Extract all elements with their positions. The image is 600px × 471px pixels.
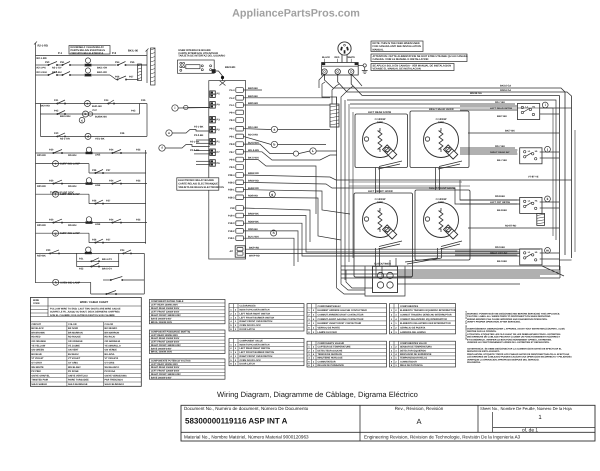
svg-text:P4-1: P4-1 bbox=[229, 104, 235, 107]
svg-text:LAMPE DU FOUR: LAMPE DU FOUR bbox=[318, 331, 338, 334]
svg-text:BK/7-BK: BK/7-BK bbox=[497, 115, 507, 118]
svg-text:BR/W-RD: BR/W-RD bbox=[248, 172, 259, 175]
svg-text:R2-1-RD: R2-1-RD bbox=[38, 45, 49, 48]
svg-text:P36: P36 bbox=[92, 199, 97, 202]
svg-text:P8-4: P8-4 bbox=[229, 111, 235, 114]
svg-text:P37: P37 bbox=[106, 199, 111, 202]
svg-text:CANADA: VOIR LE MANUEL D INSTA: CANADA: VOIR LE MANUEL D INSTALLATION bbox=[373, 58, 429, 61]
svg-text:P37: P37 bbox=[106, 169, 111, 172]
svg-text:Document No., Numéro de docume: Document No., Numéro de document, Número… bbox=[184, 406, 309, 411]
svg-text:P34: P34 bbox=[109, 218, 114, 221]
svg-text:YE AMARILLO: YE AMARILLO bbox=[105, 344, 121, 347]
svg-text:a: a bbox=[86, 102, 88, 106]
svg-text:CERROJO DE PUERTA: CERROJO DE PUERTA bbox=[400, 326, 426, 329]
svg-text:P8-6: P8-6 bbox=[229, 159, 235, 162]
svg-text:GN VERT: GN VERT bbox=[68, 349, 79, 352]
svg-text:VERROU DE PORTE: VERROU DE PORTE bbox=[318, 326, 341, 329]
svg-text:COMPOSANT PUISSANCE (WATTS): COMPOSANT PUISSANCE (WATTS) bbox=[151, 331, 190, 334]
svg-text:BAKE 2000W 240V: BAKE 2000W 240V bbox=[151, 347, 172, 350]
svg-text:RD-9-BK: RD-9-BK bbox=[495, 246, 505, 249]
svg-text:LAMPARA DEL HORNO: LAMPARA DEL HORNO bbox=[400, 331, 426, 334]
svg-text:VT VIOLET: VT VIOLET bbox=[31, 357, 44, 360]
svg-text:PK PINK: PK PINK bbox=[31, 370, 41, 373]
svg-text:SERVICIO DE ESTE APARATO.: SERVICIO DE ESTE APARATO. bbox=[467, 350, 500, 353]
svg-text:P21: P21 bbox=[79, 258, 84, 261]
svg-text:RD-WH: RD-WH bbox=[68, 154, 77, 157]
svg-text:RD-1-BK: RD-1-BK bbox=[248, 126, 258, 129]
svg-text:MINUTERIE HORLOGE: MINUTERIE HORLOGE bbox=[318, 357, 344, 360]
svg-text:P18-2: P18-2 bbox=[228, 230, 235, 233]
svg-text:LEFT FRONT BURNER SWITCH: LEFT FRONT BURNER SWITCH bbox=[240, 316, 275, 319]
svg-text:P18-1: P18-1 bbox=[228, 237, 235, 240]
svg-text:RIGHT FRONT 1800W 240V: RIGHT FRONT 1800W 240V bbox=[151, 314, 181, 317]
svg-text:OR NARANJA: OR NARANJA bbox=[105, 340, 121, 343]
svg-text:YE JAUNE: YE JAUNE bbox=[68, 344, 80, 347]
svg-text:R2-1-GY: R2-1-GY bbox=[52, 67, 62, 70]
svg-text:WH BLANC: WH BLANC bbox=[68, 366, 81, 369]
svg-text:R2-1-PK: R2-1-PK bbox=[37, 67, 47, 70]
svg-text:LINE: LINE bbox=[95, 184, 101, 187]
svg-text:LOS ERRORES DE CABLEADO PUEDEN: LOS ERRORES DE CABLEADO PUEDEN CAUSAR UN… bbox=[467, 356, 572, 359]
svg-text:ELEMENTO DELANTERO DER INTERRU: ELEMENTO DELANTERO DER INTERRUPTOR bbox=[400, 322, 451, 325]
svg-text:WIRING ERRORS CAN CAUSE IMPROP: WIRING ERRORS CAN CAUSE IMPROPER AND DAN… bbox=[467, 318, 548, 321]
svg-text:P18-3: P18-3 bbox=[228, 222, 235, 225]
svg-text:CAPTEUR DE TEMPERATURE: CAPTEUR DE TEMPERATURE bbox=[318, 346, 352, 349]
svg-text:RELAIS DE PUISSANCE: RELAIS DE PUISSANCE bbox=[318, 364, 345, 367]
svg-text:INDICADOR DE SUPERFICIE: INDICADOR DE SUPERFICIE bbox=[400, 353, 432, 356]
svg-text:RD-WH: RD-WH bbox=[68, 224, 77, 227]
svg-text:WHITE: WHITE bbox=[348, 56, 356, 59]
svg-text:R20-RD: R20-RD bbox=[37, 185, 46, 188]
svg-text:AC: AC bbox=[230, 250, 234, 253]
svg-text:P8-2: P8-2 bbox=[229, 128, 235, 131]
svg-text:LEFT FRT INFSW: LEFT FRT INFSW bbox=[490, 201, 511, 204]
svg-text:BU AZUL: BU AZUL bbox=[105, 353, 116, 356]
svg-text:P28-1: P28-1 bbox=[228, 189, 235, 192]
svg-text:BU/1-BK: BU/1-BK bbox=[92, 105, 102, 108]
svg-text:PK ROSA: PK ROSA bbox=[105, 370, 116, 373]
svg-text:P36: P36 bbox=[92, 238, 97, 241]
svg-text:OVEN IND LAMP: OVEN IND LAMP bbox=[60, 281, 81, 284]
svg-text:P4-2: P4-2 bbox=[229, 97, 235, 100]
svg-text:P8-5: P8-5 bbox=[229, 166, 235, 169]
svg-text:TWISTED PAIR: TWISTED PAIR bbox=[31, 379, 48, 382]
svg-text:RD-WH: RD-WH bbox=[68, 185, 77, 188]
svg-text:COMMUT AVANT GAUCHE CONTACTEUR: COMMUT AVANT GAUCHE CONTACTEUR bbox=[318, 318, 364, 321]
svg-text:ELEMENT ARRIERE GAUCHE CONTACT: ELEMENT ARRIERE GAUCHE CONTACTEUR bbox=[318, 309, 368, 312]
svg-text:L: L bbox=[312, 149, 314, 153]
svg-text:BK/9-BK: BK/9-BK bbox=[248, 87, 258, 90]
svg-text:OVEN DOOR LOCK: OVEN DOOR LOCK bbox=[240, 359, 262, 362]
svg-text:BK/9-BK: BK/9-BK bbox=[248, 95, 258, 98]
svg-text:WIRE / CABLE CHART: WIRE / CABLE CHART bbox=[80, 301, 109, 304]
svg-text:VERIFIER LE FONCTIONNEMENT APR: VERIFIER LE FONCTIONNEMENT APRES DE L EN… bbox=[467, 341, 550, 344]
svg-text:DETECTOR IZQUIERDO: DETECTOR IZQUIERDO bbox=[400, 349, 426, 352]
svg-text:RIGHT FRONT OVEN SWITCH: RIGHT FRONT OVEN SWITCH bbox=[240, 320, 273, 323]
svg-text:CAUTION: LABEL ALL WIRES PRIOR: CAUTION: LABEL ALL WIRES PRIOR TO DISCON… bbox=[467, 315, 551, 318]
svg-text:COMMUTATEUR: COMMUTATEUR bbox=[318, 360, 336, 363]
svg-text:YE YELLOW: YE YELLOW bbox=[31, 344, 46, 347]
svg-text:SURF IND LAMP: SURF IND LAMP bbox=[60, 193, 80, 196]
svg-text:LEFT FRONT 1200W 240V: LEFT FRONT 1200W 240V bbox=[151, 311, 180, 314]
svg-text:P45: P45 bbox=[141, 99, 146, 102]
svg-text:BR/9-BR: BR/9-BR bbox=[248, 102, 258, 105]
svg-text:P35: P35 bbox=[136, 218, 141, 221]
svg-text:DES ERREURS DE CABLAGE PEUVENT: DES ERREURS DE CABLAGE PEUVENT CAUSER UN… bbox=[467, 336, 561, 339]
svg-text:BK BLACK: BK BLACK bbox=[31, 327, 44, 330]
svg-text:BU BLUE: BU BLUE bbox=[31, 353, 42, 356]
svg-text:a: a bbox=[273, 128, 275, 132]
svg-text:GN VERDE: GN VERDE bbox=[105, 349, 118, 352]
svg-text:DOOR LATCH: DOOR LATCH bbox=[240, 328, 256, 331]
svg-text:P8-8: P8-8 bbox=[229, 143, 235, 146]
svg-text:COMPOSANTS VALEUR: COMPOSANTS VALEUR bbox=[318, 342, 345, 345]
svg-text:P30: P30 bbox=[49, 149, 54, 152]
svg-text:LINE: LINE bbox=[95, 223, 101, 226]
svg-text:TEMPORIZADOR RELOJ: TEMPORIZADOR RELOJ bbox=[400, 357, 428, 360]
svg-text:DEPOSE PAR LE CORDON.: DEPOSE PAR LE CORDON. bbox=[467, 330, 497, 333]
svg-text:PAR TRENZADO: PAR TRENZADO bbox=[105, 379, 124, 382]
svg-text:COMMUT ARRIERE DROIT CONTACTEU: COMMUT ARRIERE DROIT CONTACTEUR bbox=[318, 314, 364, 317]
svg-text:BK/4-RD: BK/4-RD bbox=[40, 105, 50, 108]
svg-text:e: e bbox=[55, 162, 57, 166]
svg-text:P30: P30 bbox=[49, 218, 54, 221]
svg-text:COMPONENTES: COMPONENTES bbox=[400, 305, 419, 308]
svg-text:P3-2-BK: P3-2-BK bbox=[194, 134, 204, 137]
svg-text:CIRCUITO RELELETROICA: CIRCUITO RELELETROICA bbox=[71, 52, 104, 55]
svg-text:P24: P24 bbox=[120, 249, 125, 252]
svg-text:WH BLANCO: WH BLANCO bbox=[105, 366, 120, 369]
svg-text:RD-7-BK: RD-7-BK bbox=[495, 101, 505, 104]
svg-text:P30: P30 bbox=[49, 179, 54, 182]
svg-text:ET DANGEREUX. VERIFIER LE BON: ET DANGEREUX. VERIFIER LE BON FONCTIONNE… bbox=[467, 338, 552, 341]
svg-text:P3-1-BK: P3-1-BK bbox=[194, 126, 204, 129]
svg-text:COMPONENTES VALOR: COMPONENTES VALOR bbox=[400, 342, 427, 345]
svg-text:COLOR: COLOR bbox=[105, 323, 114, 326]
svg-text:e: e bbox=[168, 131, 170, 135]
svg-text:BROIL 3000W 240V: BROIL 3000W 240V bbox=[151, 351, 173, 354]
svg-text:LEFT FRONT 1200W 240V: LEFT FRONT 1200W 240V bbox=[151, 370, 180, 373]
svg-text:d: d bbox=[87, 135, 89, 139]
svg-text:BK-9-BK: BK-9-BK bbox=[497, 260, 507, 263]
svg-text:COMPONENTS/ELEC: COMPONENTS/ELEC bbox=[318, 305, 342, 308]
svg-text:BK/4-WH: BK/4-WH bbox=[60, 115, 71, 118]
svg-text:P8-3: P8-3 bbox=[229, 119, 235, 122]
svg-text:P18-4: P18-4 bbox=[228, 215, 235, 218]
svg-text:CLOCK/TIMER: CLOCK/TIMER bbox=[374, 263, 391, 266]
svg-text:Engineering Revision, Révision: Engineering Revision, Révision de Techno… bbox=[364, 435, 521, 440]
svg-text:WARNING: POWER MUST BE DISCONN: WARNING: POWER MUST BE DISCONNECTED BEFO… bbox=[467, 313, 560, 316]
svg-text:BK-8-BK: BK-8-BK bbox=[497, 209, 507, 212]
svg-text:MAIN TOP/COVER SWITCH: MAIN TOP/COVER SWITCH bbox=[240, 308, 270, 311]
svg-text:i: i bbox=[175, 106, 176, 110]
svg-text:h: h bbox=[273, 231, 275, 235]
svg-text:k: k bbox=[547, 197, 549, 201]
svg-text:R2-1-BU: R2-1-BU bbox=[52, 71, 62, 74]
svg-text:P18: P18 bbox=[230, 207, 235, 210]
svg-text:WH WHITE: WH WHITE bbox=[31, 366, 44, 369]
svg-text:LEFT REAR 1200W 240V: LEFT REAR 1200W 240V bbox=[151, 304, 178, 307]
svg-text:j: j bbox=[546, 147, 548, 151]
svg-text:VERIFIQUE LA OPERACION APROPIA: VERIFIQUE LA OPERACION APROPIADA DESPUES… bbox=[467, 358, 540, 361]
svg-text:P54: P54 bbox=[115, 61, 120, 64]
svg-text:g: g bbox=[271, 192, 273, 196]
svg-text:OVEN DOOR LOCK: OVEN DOOR LOCK bbox=[240, 324, 262, 327]
svg-text:g: g bbox=[55, 231, 57, 235]
svg-text:COMPONENTE POTENCIA VOLTIOS: COMPONENTE POTENCIA VOLTIOS bbox=[151, 359, 191, 362]
svg-text:P-5: P-5 bbox=[112, 52, 117, 55]
svg-text:P41: P41 bbox=[54, 99, 59, 102]
svg-text:BK/7-BK: BK/7-BK bbox=[505, 130, 515, 133]
svg-text:RD RED: RD RED bbox=[31, 336, 40, 339]
svg-text:AppliancePartsPros.com: AppliancePartsPros.com bbox=[232, 8, 360, 20]
svg-text:BK/1-RD: BK/1-RD bbox=[97, 71, 107, 74]
svg-text:RD-8-BK: RD-8-BK bbox=[495, 195, 505, 198]
svg-text:WH/16 GA: WH/16 GA bbox=[470, 92, 482, 95]
svg-text:LINE: LINE bbox=[95, 154, 101, 157]
svg-text:COMPONENT RATING TABLE: COMPONENT RATING TABLE bbox=[151, 300, 184, 303]
svg-text:P20: P20 bbox=[46, 249, 51, 252]
svg-text:P28-4: P28-4 bbox=[228, 174, 235, 177]
svg-text:LEFT REAR INFSW: LEFT REAR INFSW bbox=[490, 107, 513, 110]
svg-text:58300000119116 ASP INT A: 58300000119116 ASP INT A bbox=[185, 417, 288, 426]
svg-text:R2-1-OR: R2-1-OR bbox=[60, 138, 70, 141]
svg-text:Sheet No., Nombre De Feuille,: Sheet No., Nombre De Feuille, Número De … bbox=[480, 406, 572, 411]
svg-text:BLACK: BLACK bbox=[322, 56, 330, 59]
svg-text:VT VIOLET: VT VIOLET bbox=[68, 357, 81, 360]
svg-text:LEFT REAR 1200W 240V: LEFT REAR 1200W 240V bbox=[151, 334, 178, 337]
svg-text:BR MARRON: BR MARRON bbox=[105, 331, 120, 334]
svg-text:ELECTRONIC RELAY BOARD: ELECTRONIC RELAY BOARD bbox=[178, 179, 214, 182]
svg-text:RD/16 GA: RD/16 GA bbox=[500, 89, 511, 92]
svg-text:LEFT FRONT BURNER SWITCH: LEFT FRONT BURNER SWITCH bbox=[240, 351, 275, 354]
svg-text:OR ORANGE: OR ORANGE bbox=[68, 340, 83, 343]
svg-text:P28-3: P28-3 bbox=[228, 196, 235, 199]
svg-text:BK NEGRO: BK NEGRO bbox=[105, 327, 118, 330]
svg-text:b: b bbox=[85, 112, 87, 116]
svg-text:LEFT FRONT 1200W 240V: LEFT FRONT 1200W 240V bbox=[151, 341, 180, 344]
svg-text:RD-8T-RD: RD-8T-RD bbox=[505, 225, 517, 228]
svg-text:R20-RD: R20-RD bbox=[37, 154, 46, 157]
svg-text:P47: P47 bbox=[93, 109, 98, 112]
svg-text:ADVERTENCIA: SE DEBE DESCONECT: ADVERTENCIA: SE DEBE DESCONECTAR LA ALIM… bbox=[467, 348, 562, 351]
svg-text:CONMUTADOR: CONMUTADOR bbox=[400, 360, 417, 363]
svg-text:AVERTISSEMENT: DEBRANCHER L AP: AVERTISSEMENT: DEBRANCHER L APPAREIL AVA… bbox=[467, 328, 565, 331]
svg-text:TARJETA DE RELES ELECTRONICOS: TARJETA DE RELES ELECTRONICOS bbox=[178, 186, 224, 189]
svg-text:RD-3-RD: RD-3-RD bbox=[248, 134, 258, 137]
svg-text:PK ROSE: PK ROSE bbox=[68, 370, 79, 373]
svg-text:BK/L-86: BK/L-86 bbox=[128, 50, 139, 53]
svg-text:SURF IND LAMP: SURF IND LAMP bbox=[60, 163, 80, 166]
svg-text:P50: P50 bbox=[45, 61, 50, 64]
svg-text:RIGHT FRONT OVEN SWITCH: RIGHT FRONT OVEN SWITCH bbox=[240, 355, 273, 358]
svg-text:RELE DE POTENCIA: RELE DE POTENCIA bbox=[400, 364, 423, 367]
svg-text:i: i bbox=[545, 103, 546, 107]
svg-text:P51: P51 bbox=[60, 61, 65, 64]
svg-text:P37: P37 bbox=[106, 238, 111, 241]
svg-text:BR MARRON: BR MARRON bbox=[68, 331, 83, 334]
svg-text:R20-BK: R20-BK bbox=[37, 255, 46, 258]
svg-text:P56: P56 bbox=[115, 76, 120, 79]
svg-text:h: h bbox=[55, 280, 57, 284]
svg-text:GN/YE GRN/YEL: GN/YE GRN/YEL bbox=[31, 374, 50, 377]
svg-text:BK-7-BK: BK-7-BK bbox=[497, 159, 507, 162]
svg-text:BR BROWN: BR BROWN bbox=[31, 331, 45, 334]
svg-text:YE/1-BK: YE/1-BK bbox=[95, 138, 105, 141]
svg-text:BROIL 3000W 240V: BROIL 3000W 240V bbox=[151, 321, 173, 324]
svg-text:BK/P-RD: BK/P-RD bbox=[249, 246, 259, 249]
svg-text:WIRE: WIRE bbox=[33, 299, 39, 302]
svg-text:COMPONENT VALUE: COMPONENT VALUE bbox=[240, 340, 264, 343]
svg-text:m: m bbox=[546, 249, 549, 253]
svg-text:BR-4-GY: BR-4-GY bbox=[102, 258, 112, 261]
svg-text:P34: P34 bbox=[109, 149, 114, 152]
svg-text:CONMUT DELANTERO IZQ INTERRUPT: CONMUT DELANTERO IZQ INTERRUPTOR bbox=[400, 318, 447, 321]
svg-text:VEANSE EL MANUAL DE INSTALACIO: VEANSE EL MANUAL DE INSTALACION bbox=[373, 68, 421, 71]
svg-text:P34: P34 bbox=[109, 179, 114, 182]
svg-text:SENSOR DE TEMPERATURA: SENSOR DE TEMPERATURA bbox=[400, 346, 432, 349]
svg-text:P42: P42 bbox=[54, 110, 59, 113]
svg-text:BK/16 GA: BK/16 GA bbox=[500, 85, 511, 88]
svg-text:BAKE 2000W 240V: BAKE 2000W 240V bbox=[151, 317, 172, 320]
svg-text:PAIRE TORSADEE: PAIRE TORSADEE bbox=[68, 379, 89, 382]
svg-text:BK/4-RD: BK/4-RD bbox=[225, 66, 235, 69]
svg-text:RIGHT REAR 1500W 240V: RIGHT REAR 1500W 240V bbox=[151, 307, 180, 310]
svg-text:LEFT REAR RIGHT SWITCH: LEFT REAR RIGHT SWITCH bbox=[240, 347, 271, 350]
svg-text:BU/W-RD: BU/W-RD bbox=[248, 187, 259, 190]
svg-text:P40: P40 bbox=[54, 132, 59, 135]
svg-text:ELEMENTO TRASERO IZQUIERDO INT: ELEMENTO TRASERO IZQUIERDO INTERRUPTOR bbox=[400, 309, 456, 312]
svg-text:P4-4: P4-4 bbox=[229, 89, 235, 92]
svg-text:CIRCUIT: CIRCUIT bbox=[31, 323, 41, 326]
svg-text:c: c bbox=[81, 118, 83, 122]
svg-text:GN/YE VERDE/AMA: GN/YE VERDE/AMA bbox=[105, 374, 127, 377]
svg-text:WH/P-RD: WH/P-RD bbox=[249, 254, 260, 257]
svg-text:RIGHT REAR 1500W 240V: RIGHT REAR 1500W 240V bbox=[151, 366, 180, 369]
svg-text:BK/1-OR: BK/1-OR bbox=[97, 67, 107, 70]
svg-text:BU/BK-BK: BU/BK-BK bbox=[95, 115, 107, 118]
svg-text:P8-7: P8-7 bbox=[229, 151, 235, 154]
svg-text:Rev., Révision, Revisión: Rev., Révision, Revisión bbox=[395, 406, 444, 411]
svg-text:VT-8T-YE: VT-8T-YE bbox=[528, 176, 539, 179]
svg-text:RIGHT FRT INF: RIGHT FRT INF bbox=[490, 252, 508, 255]
svg-text:CLEARANCES: CLEARANCES bbox=[240, 305, 257, 308]
svg-text:LEFT REAR 1200W: LEFT REAR 1200W bbox=[368, 111, 392, 114]
svg-text:LEFT REAR 1200W 240V: LEFT REAR 1200W 240V bbox=[151, 363, 178, 366]
svg-text:RD ROJO: RD ROJO bbox=[105, 336, 116, 339]
svg-text:BK NOIR: BK NOIR bbox=[68, 327, 78, 330]
svg-text:RED: RED bbox=[335, 56, 340, 59]
svg-text:LEFT FRONT 1200W: LEFT FRONT 1200W bbox=[368, 190, 393, 193]
svg-text:RD ROUGE: RD ROUGE bbox=[68, 336, 81, 339]
svg-text:P46: P46 bbox=[120, 132, 125, 135]
svg-text:RD-7-BK: RD-7-BK bbox=[495, 145, 505, 148]
svg-text:ATTENTION: ETIQUETER LES FILS: ATTENTION: ETIQUETER LES FILS AVANT DE L… bbox=[467, 333, 561, 336]
svg-text:MAIN TOP/COVER SWITCH: MAIN TOP/COVER SWITCH bbox=[240, 343, 270, 346]
svg-text:TEMOIN DE SURFACE: TEMOIN DE SURFACE bbox=[318, 353, 343, 356]
svg-text:P35: P35 bbox=[136, 179, 141, 182]
svg-text:P36: P36 bbox=[92, 169, 97, 172]
svg-text:BAKE 2000W 240V: BAKE 2000W 240V bbox=[151, 376, 172, 379]
svg-text:TARJETA DE INTERFAZ DEL USUARI: TARJETA DE INTERFAZ DEL USUARIO bbox=[178, 55, 225, 58]
svg-text:SHLD SHIELD: SHLD SHIELD bbox=[31, 383, 47, 386]
svg-text:R20-RD: R20-RD bbox=[37, 224, 46, 227]
svg-text:GY GRAY: GY GRAY bbox=[31, 362, 42, 365]
svg-text:P8-1: P8-1 bbox=[229, 135, 235, 138]
svg-text:CODE: CODE bbox=[33, 302, 40, 305]
svg-text:RIGHT REAR 1500W 240V: RIGHT REAR 1500W 240V bbox=[151, 337, 180, 340]
svg-text:PRECAUCION: ETIQUETE TODOS LOS: PRECAUCION: ETIQUETE TODOS LOS CABLES AN… bbox=[467, 353, 570, 356]
svg-text:R2-1-RD: R2-1-RD bbox=[37, 57, 47, 60]
svg-text:BR/W-RD: BR/W-RD bbox=[248, 180, 259, 183]
svg-text:GY GRIS: GY GRIS bbox=[105, 362, 115, 365]
svg-text:SHLD BLINDAGE: SHLD BLINDAGE bbox=[68, 383, 88, 386]
svg-text:GY GRIS: GY GRIS bbox=[68, 362, 78, 365]
svg-text:P35: P35 bbox=[136, 149, 141, 152]
svg-text:SON EL CALIBRE; DOS ULTIMOS DI: SON EL CALIBRE; DOS ULTIMOS DIGITOS SON … bbox=[50, 314, 115, 317]
svg-text:CONMUT TRASERO DERECHO INTERRU: CONMUT TRASERO DERECHO INTERRUPTOR bbox=[400, 314, 452, 317]
svg-text:A: A bbox=[416, 417, 421, 426]
svg-text:MANUAL: MANUAL bbox=[373, 48, 384, 51]
svg-text:GN GREEN: GN GREEN bbox=[31, 349, 44, 352]
svg-text:CARTE RELAIS ELECTRONIQUE: CARTE RELAIS ELECTRONIQUE bbox=[178, 183, 218, 186]
svg-text:P-1: P-1 bbox=[58, 52, 63, 55]
svg-text:RIGHT FRONT 1800W 240V: RIGHT FRONT 1800W 240V bbox=[151, 344, 181, 347]
svg-text:BR-5-GY: BR-5-GY bbox=[102, 268, 112, 271]
svg-text:P28-2: P28-2 bbox=[228, 181, 235, 184]
svg-text:BU BLEU: BU BLEU bbox=[68, 353, 79, 356]
svg-text:of, de 1: of, de 1 bbox=[522, 428, 538, 434]
svg-text:P44: P44 bbox=[104, 99, 109, 102]
svg-text:DETECTEUR GAUCHE: DETECTEUR GAUCHE bbox=[318, 349, 343, 352]
svg-text:OR ORANGE: OR ORANGE bbox=[31, 340, 46, 343]
svg-text:SHLD BLINDADO: SHLD BLINDADO bbox=[105, 383, 125, 386]
svg-text:LEFT REAR RIGHT SWITCH: LEFT REAR RIGHT SWITCH bbox=[240, 312, 271, 315]
svg-text:Material No., Nombre Matériel,: Material No., Nombre Matériel, Número Ma… bbox=[184, 435, 309, 440]
svg-text:b: b bbox=[273, 143, 275, 147]
svg-text:ELEMENT AVANT DROIT CONTACTEUR: ELEMENT AVANT DROIT CONTACTEUR bbox=[318, 322, 362, 325]
svg-text:P57: P57 bbox=[129, 76, 134, 79]
svg-text:RIGHT REAR INF: RIGHT REAR INF bbox=[490, 151, 510, 154]
svg-text:P55: P55 bbox=[130, 61, 135, 64]
svg-text:COLOR: COLOR bbox=[68, 323, 77, 326]
svg-text:R2-1-WH: R2-1-WH bbox=[37, 71, 47, 74]
svg-text:SURF IND LAMP: SURF IND LAMP bbox=[60, 232, 80, 235]
svg-text:VT VIOLETA: VT VIOLETA bbox=[105, 357, 119, 360]
svg-text:Wiring Diagram, Diagramme de C: Wiring Diagram, Diagramme de Câblage, Di… bbox=[217, 390, 418, 399]
svg-text:RIGHT FRONT 1800W 240V: RIGHT FRONT 1800W 240V bbox=[151, 373, 181, 376]
svg-text:VERIFY PROPER OPERATION AFTER: VERIFY PROPER OPERATION AFTER SERVICING. bbox=[467, 321, 521, 324]
svg-text:P22: P22 bbox=[79, 268, 84, 271]
svg-text:PELIGROSA.: PELIGROSA. bbox=[467, 361, 481, 364]
svg-text:GN/YE VERT/JAU: GN/YE VERT/JAU bbox=[68, 374, 88, 377]
svg-text:DOOR LATCH: DOOR LATCH bbox=[240, 363, 256, 366]
svg-text:P43: P43 bbox=[131, 110, 136, 113]
